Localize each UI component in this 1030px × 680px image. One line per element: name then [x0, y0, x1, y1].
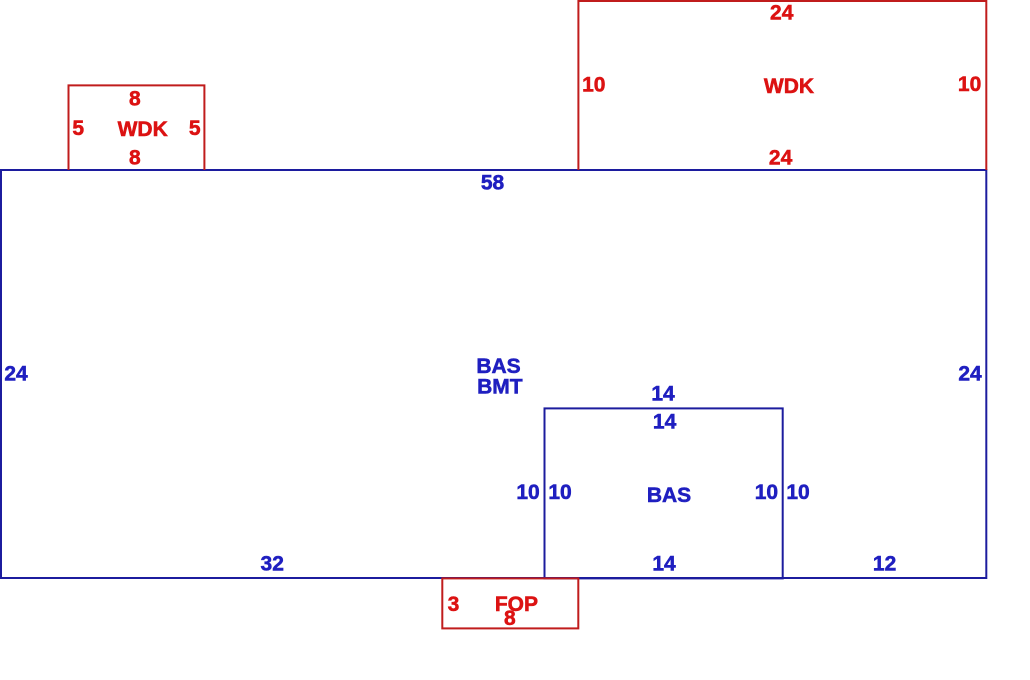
svg-text:24: 24: [770, 2, 794, 25]
svg-text:14: 14: [652, 553, 676, 576]
svg-text:58: 58: [481, 171, 505, 194]
svg-text:10: 10: [786, 481, 809, 504]
svg-text:FOP: FOP: [495, 593, 538, 616]
svg-text:10: 10: [548, 481, 571, 504]
svg-text:5: 5: [189, 117, 201, 140]
svg-text:10: 10: [755, 481, 778, 504]
svg-text:WDK: WDK: [118, 118, 168, 141]
svg-text:24: 24: [4, 362, 28, 385]
svg-text:BAS: BAS: [647, 484, 691, 507]
svg-text:12: 12: [873, 553, 896, 576]
svg-text:8: 8: [129, 147, 141, 170]
svg-text:3: 3: [448, 593, 460, 616]
svg-text:10: 10: [958, 73, 981, 96]
svg-text:14: 14: [653, 411, 677, 434]
svg-text:24: 24: [958, 362, 982, 385]
svg-text:8: 8: [129, 88, 141, 111]
area WDK left rectangle (open bottom): [69, 85, 205, 170]
svg-text:BAS: BAS: [476, 355, 520, 378]
area WDK top-right rectangle (open bottom): [578, 1, 986, 170]
area FOP bottom rectangle: [442, 578, 578, 628]
svg-text:10: 10: [582, 73, 605, 96]
svg-text:10: 10: [516, 481, 539, 504]
area BAS inner rectangle: [545, 408, 783, 578]
svg-text:WDK: WDK: [764, 75, 814, 98]
svg-text:5: 5: [72, 117, 84, 140]
area BAS/BMT main rectangle: [1, 170, 986, 578]
svg-text:14: 14: [651, 382, 675, 405]
svg-text:32: 32: [261, 553, 284, 576]
svg-text:8: 8: [504, 607, 516, 630]
svg-text:24: 24: [769, 146, 793, 169]
svg-text:BMT: BMT: [477, 376, 523, 399]
